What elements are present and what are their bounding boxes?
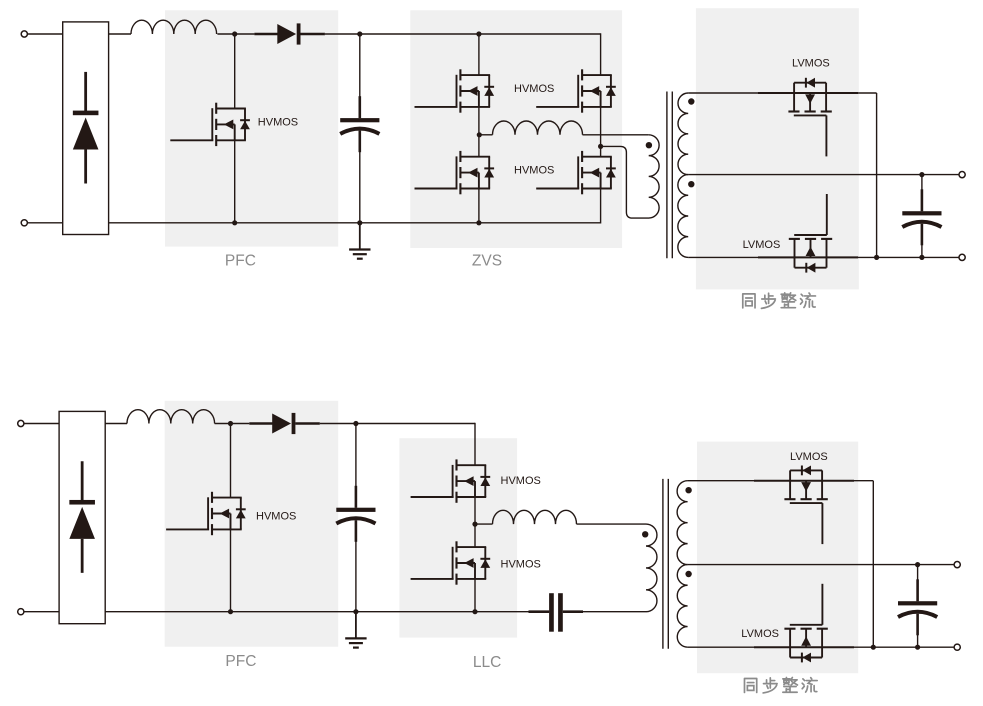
capacitor C5 output (circuit 2) xyxy=(898,579,937,635)
node PFC source (circuit 1) xyxy=(232,220,237,225)
polarity dot T2 primary xyxy=(642,531,648,537)
label LVMOS Q12 xyxy=(741,628,779,640)
region PFC (bottom circuit) xyxy=(165,401,339,647)
wire node A to resonant inductor xyxy=(479,134,492,136)
node LLC source (circuit 2) xyxy=(472,609,477,614)
transformer T1 core xyxy=(667,92,672,259)
transformer T1 secondary bottom winding xyxy=(678,175,688,258)
mosfet Q3 HVMOS (ZVS low-left) xyxy=(415,151,495,194)
svg-text:LVMOS: LVMOS xyxy=(790,451,828,463)
label LVMOS Q6 xyxy=(792,58,830,70)
wire Q4 source to node B xyxy=(600,107,602,146)
polarity dot T2 secondary bottom xyxy=(685,571,691,577)
wire Q10 source xyxy=(474,579,476,612)
wire PFC switch source (circuit 2) xyxy=(230,529,232,611)
wire cap C5 bottom lead xyxy=(917,623,919,647)
wire Q2 source to node A xyxy=(478,107,480,135)
wire Q9 source to node C xyxy=(474,497,476,524)
output terminal minus (circuit 1) xyxy=(959,254,965,260)
label PFC (circuit 2) xyxy=(225,653,256,670)
wire cap C3 top lead xyxy=(355,424,357,498)
region ZVS xyxy=(410,10,622,248)
svg-text:HVMOS: HVMOS xyxy=(501,475,541,487)
wire input live (circuit 2) xyxy=(24,423,59,425)
node B bridge mid-right xyxy=(598,144,603,149)
region sync-rectifier (bottom circuit) xyxy=(697,442,858,674)
svg-text:HVMOS: HVMOS xyxy=(256,511,296,523)
svg-text:LVMOS: LVMOS xyxy=(743,239,781,251)
wire L4 to transformer primary xyxy=(577,523,647,525)
output terminal minus (circuit 2) xyxy=(954,644,960,650)
wire bridge to inductor (circuit 2) xyxy=(105,423,127,425)
label sync-rect (circuit 2) xyxy=(744,677,817,692)
mosfet Q12 LVMOS (sync bottom, circuit 2) xyxy=(784,584,827,663)
mosfet Q8 HVMOS (PFC, circuit 2) xyxy=(166,492,246,535)
label LVMOS Q7 xyxy=(743,239,781,251)
mosfet Q1 HVMOS (PFC, circuit 1) xyxy=(170,103,250,146)
node PFC source (circuit 2) xyxy=(228,609,233,614)
mosfet Q6 LVMOS (sync top, circuit 1) xyxy=(788,78,831,157)
polarity dot T2 secondary top xyxy=(685,487,691,493)
label HVMOS Q8 xyxy=(256,511,296,523)
diode D1 (PFC boost, circuit 1) xyxy=(254,23,325,44)
wire node C to resonant inductor xyxy=(475,523,493,525)
node cap C5 top xyxy=(915,562,920,567)
wire bridge to inductor (circuit 1) xyxy=(109,33,131,35)
svg-text:HVMOS: HVMOS xyxy=(514,165,554,177)
wire bottom rail (circuit 1) xyxy=(109,222,601,224)
label HVMOS Q2-Q4 row xyxy=(514,83,554,95)
wire node A to Q3 drain xyxy=(478,135,480,157)
label LVMOS Q11 xyxy=(790,451,828,463)
label HVMOS Q10 xyxy=(501,559,541,571)
node A bridge mid-left xyxy=(477,132,482,137)
bridge rectifier BR2 xyxy=(59,411,105,623)
wire Q9 drain drop xyxy=(474,423,476,465)
wire node C to Q10 drain xyxy=(474,524,476,547)
region sync-rectifier (top circuit) xyxy=(696,8,859,289)
inductor L1 (PFC boost, circuit 1) xyxy=(131,20,217,34)
wire node B elbow to primary bottom xyxy=(601,146,649,218)
wire diode to bus (circuit 1) xyxy=(325,33,360,35)
inductor L2 (ZVS resonant) xyxy=(493,121,583,135)
wire center-tap rail (circuit 2) xyxy=(688,564,958,566)
label HVMOS Q1 xyxy=(258,117,298,129)
wire Q4 drain drop xyxy=(600,33,602,75)
wire diode to bus (circuit 2) xyxy=(320,423,356,425)
label HVMOS Q3-Q5 row xyxy=(514,165,554,177)
wire Q3 source xyxy=(478,189,480,223)
node cap C2 top xyxy=(919,172,924,177)
wire DC bus top rail (circuit 2) xyxy=(356,423,475,425)
mosfet Q5 HVMOS (ZVS low-right) xyxy=(536,151,616,194)
node bus to bottom rail (circuit 1) xyxy=(874,255,879,260)
svg-text:LLC: LLC xyxy=(473,654,501,671)
capacitor C1 bulk (circuit 1) xyxy=(340,96,379,152)
wire input live (circuit 1) xyxy=(27,33,62,35)
region PFC (top circuit) xyxy=(165,10,338,246)
wire Q5 source xyxy=(600,189,602,224)
ground (circuit 2) xyxy=(345,612,366,648)
node bridge left top (circuit 1) xyxy=(476,31,481,36)
node DC bus top (circuit 1) xyxy=(357,31,362,36)
wire secondary top rail (circuit 2) xyxy=(688,480,874,482)
transformer T2 secondary top winding xyxy=(677,481,687,565)
node boost switch (circuit 1) xyxy=(232,31,237,36)
wire inductor to node (circuit 1) xyxy=(217,33,254,35)
wire cap C2 top lead xyxy=(921,175,923,201)
input terminal bottom (circuit 2) xyxy=(18,609,24,615)
label HVMOS Q9 xyxy=(501,475,541,487)
svg-text:HVMOS: HVMOS xyxy=(258,117,298,129)
node bus to bottom rail (circuit 2) xyxy=(871,645,876,650)
polarity dot T1 secondary top xyxy=(688,98,694,104)
polarity dot T1 primary xyxy=(646,142,652,148)
svg-text:HVMOS: HVMOS xyxy=(514,83,554,95)
transformer T2 secondary bottom winding xyxy=(677,565,687,648)
mosfet Q9 HVMOS (LLC high) xyxy=(411,459,491,502)
input terminal top (circuit 2) xyxy=(18,420,24,426)
node ground (circuit 2) xyxy=(353,609,358,614)
transformer T2 core xyxy=(663,479,668,649)
output terminal plus (circuit 1) xyxy=(959,172,965,178)
wire bottom rail (circuit 2) xyxy=(105,611,549,613)
wire right bus drop (circuit 1) xyxy=(876,93,878,257)
label sync-rect (circuit 1) xyxy=(743,293,816,308)
svg-text:LVMOS: LVMOS xyxy=(792,58,830,70)
svg-text:PFC: PFC xyxy=(225,653,256,670)
bridge rectifier BR1 xyxy=(63,22,109,235)
capacitor C4 resonant xyxy=(529,593,584,632)
svg-text:HVMOS: HVMOS xyxy=(501,559,541,571)
label LLC xyxy=(473,654,501,671)
node DC bus top (circuit 2) xyxy=(353,421,358,426)
wire PFC switch source (circuit 1) xyxy=(234,140,236,223)
wire input neutral (circuit 1) xyxy=(27,222,62,224)
svg-text:PFC: PFC xyxy=(225,252,256,269)
wire secondary top rail (circuit 1) xyxy=(688,92,876,94)
capacitor C3 bulk (circuit 2) xyxy=(336,486,375,542)
svg-text:LVMOS: LVMOS xyxy=(741,628,779,640)
transformer T1 primary winding xyxy=(649,135,659,218)
wire cap C1 top lead xyxy=(359,34,361,108)
wire cap C1 bottom lead xyxy=(359,140,361,223)
wire PFC switch drain (circuit 1) xyxy=(234,34,236,109)
wire right bus drop (circuit 2) xyxy=(872,481,874,648)
node bridge left bottom (circuit 1) xyxy=(476,220,481,225)
svg-text:ZVS: ZVS xyxy=(472,252,502,269)
inductor L4 (LLC resonant) xyxy=(493,510,577,524)
wire cap C4 to primary bottom xyxy=(583,611,646,613)
wire cap C2 bottom lead xyxy=(921,233,923,257)
input terminal top (circuit 1) xyxy=(21,31,27,37)
transformer T1 secondary top winding xyxy=(678,93,688,175)
wire node B to Q5 drain xyxy=(600,146,602,156)
node ground (circuit 1) xyxy=(357,220,362,225)
wire cap C3 bottom lead xyxy=(355,530,357,612)
wire secondary bottom rail (circuit 1) xyxy=(688,256,962,258)
mosfet Q2 HVMOS (ZVS high-left) xyxy=(415,69,495,112)
inductor L3 (PFC boost, circuit 2) xyxy=(127,410,215,424)
wire L2 to transformer primary xyxy=(583,134,649,136)
wire secondary bottom rail (circuit 2) xyxy=(688,646,958,648)
wire Q2 drain xyxy=(478,34,480,75)
wire inductor to node (circuit 2) xyxy=(215,423,250,425)
mosfet Q7 LVMOS (sync bottom, circuit 1) xyxy=(789,194,832,273)
polarity dot T1 secondary bottom xyxy=(688,181,694,187)
mosfet Q10 HVMOS (LLC low) xyxy=(411,541,491,584)
node cap C5 bottom xyxy=(915,645,920,650)
wire DC bus top rail (circuit 1) xyxy=(360,33,601,35)
label ZVS xyxy=(472,252,502,269)
transformer T2 primary winding xyxy=(646,524,657,612)
node C LLC mid xyxy=(472,522,477,527)
node cap C2 bottom xyxy=(919,255,924,260)
mosfet Q11 LVMOS (sync top, circuit 2) xyxy=(784,466,827,545)
wire input neutral (circuit 2) xyxy=(24,611,59,613)
wire cap C5 top lead xyxy=(917,565,919,591)
region LLC xyxy=(399,438,517,637)
node boost switch (circuit 2) xyxy=(228,421,233,426)
output terminal plus (circuit 2) xyxy=(954,562,960,568)
mosfet Q4 HVMOS (ZVS high-right) xyxy=(536,69,616,112)
ground (circuit 1) xyxy=(349,223,370,259)
label PFC (circuit 1) xyxy=(225,252,256,269)
capacitor C2 output (circuit 1) xyxy=(902,189,941,245)
input terminal bottom (circuit 1) xyxy=(21,220,27,226)
wire PFC switch drain (circuit 2) xyxy=(230,424,232,498)
diode D2 (PFC boost, circuit 2) xyxy=(249,413,319,434)
wire center-tap rail (circuit 1) xyxy=(688,174,962,176)
